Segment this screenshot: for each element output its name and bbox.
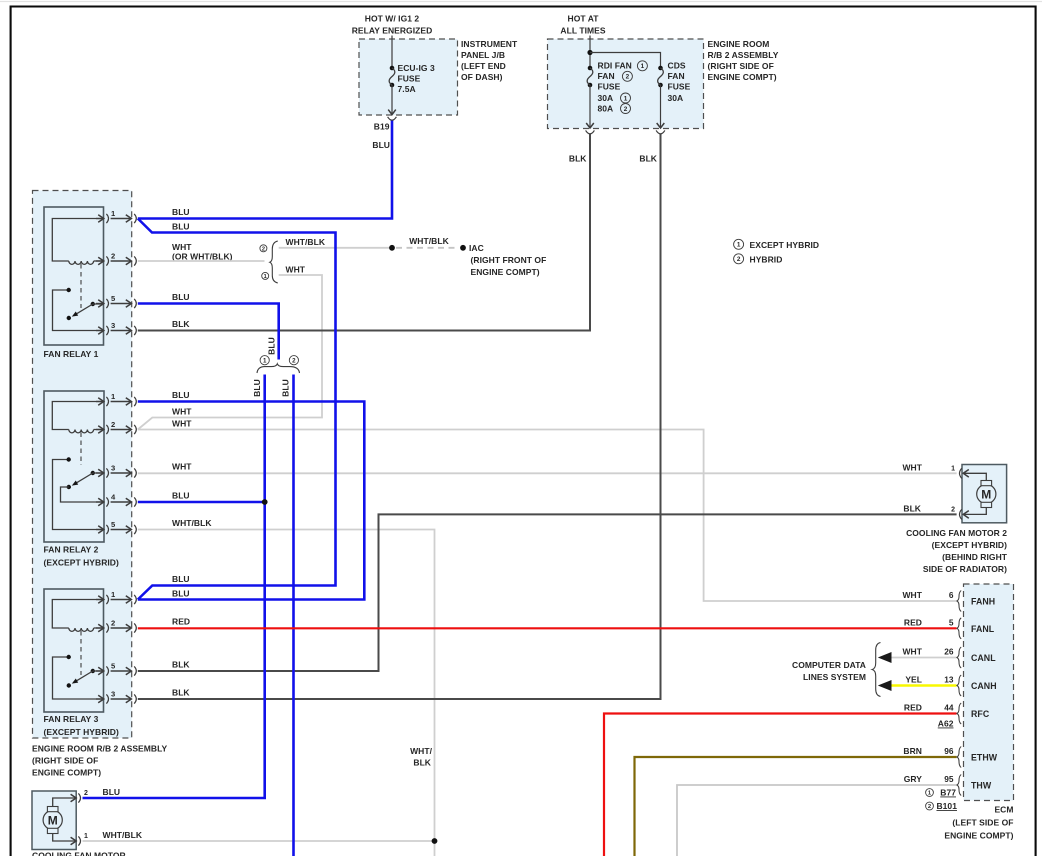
svg-text:1: 1 [263, 357, 267, 364]
svg-text:BLU: BLU [267, 337, 277, 355]
wire WHT relay2 pin2 to ECM FANH [138, 430, 957, 602]
motor2 pin 1 [960, 468, 962, 478]
svg-text:(EXCEPT HYBRID): (EXCEPT HYBRID) [932, 540, 1007, 550]
svg-text:5: 5 [949, 617, 954, 627]
fuse ECU-IG 3 7.5A [390, 66, 395, 71]
legend hybrid [734, 254, 744, 264]
wire RED relay3 pin2 to ECM FANL [138, 627, 957, 629]
svg-text:CANH: CANH [971, 681, 997, 691]
wire BRN ECM ETHW going off-page [635, 757, 957, 856]
svg-text:BLU: BLU [172, 292, 190, 302]
wire BLK CDS fuse down to relay3 pin3 [138, 134, 661, 700]
svg-text:2: 2 [84, 790, 88, 797]
svg-text:WHT: WHT [286, 264, 306, 274]
svg-text:EXCEPT HYBRID: EXCEPT HYBRID [750, 240, 820, 250]
svg-text:RED: RED [904, 617, 922, 627]
svg-text:FAN: FAN [598, 71, 615, 81]
svg-text:80A: 80A [598, 104, 614, 114]
wire BLK RDI fuse down to relay1 pin3 [138, 134, 590, 331]
svg-text:SIDE OF RADIATOR): SIDE OF RADIATOR) [923, 564, 1007, 574]
cooling fan motor 2 box [962, 465, 1007, 523]
feed wire into box [391, 36, 393, 69]
engine room R/B 2 assembly (fuse) dashed box [548, 39, 704, 129]
svg-text:30A: 30A [668, 93, 684, 103]
svg-text:ALL TIMES: ALL TIMES [560, 26, 605, 36]
svg-text:(LEFT SIDE OF: (LEFT SIDE OF [952, 818, 1013, 828]
svg-text:THW: THW [971, 781, 992, 791]
legend except hybrid [734, 239, 744, 249]
svg-text:30A: 30A [598, 93, 614, 103]
svg-text:(RIGHT SIDE OF: (RIGHT SIDE OF [32, 756, 98, 766]
svg-text:(EXCEPT HYBRID): (EXCEPT HYBRID) [44, 727, 119, 737]
relay inner box FAN RELAY 1 [44, 207, 104, 345]
wire BLU branch 2 going off-page [292, 375, 295, 856]
svg-text:GRY: GRY [904, 774, 923, 784]
svg-text:1: 1 [264, 274, 267, 280]
svg-text:3: 3 [111, 321, 115, 330]
svg-text:B19: B19 [374, 122, 390, 132]
svg-text:ENGINE ROOM R/B 2 ASSEMBLY: ENGINE ROOM R/B 2 ASSEMBLY [32, 744, 168, 754]
svg-text:FUSE: FUSE [668, 82, 691, 92]
svg-text:RELAY ENERGIZED: RELAY ENERGIZED [352, 26, 433, 36]
svg-text:BLU: BLU [372, 140, 390, 150]
svg-text:26: 26 [944, 647, 954, 657]
junction relay2 pin4 / branch1 [262, 499, 268, 505]
svg-text:FAN RELAY 2: FAN RELAY 2 [44, 545, 99, 555]
svg-text:HOT AT: HOT AT [568, 14, 600, 24]
svg-text:2: 2 [292, 357, 296, 364]
wire BLK relay3 pin5 to cooling fan motor 2 pin 2 [138, 514, 957, 671]
wire BLU relay2 pin1 to relay3 pin1 (lower) [138, 402, 364, 600]
svg-text:COOLING FAN MOTOR: COOLING FAN MOTOR [32, 851, 126, 856]
wire BLU relay2 pin4 to junction [138, 501, 265, 504]
svg-text:WHT/BLK: WHT/BLK [286, 237, 326, 247]
feed wire and branch [589, 36, 591, 69]
svg-text:CANL: CANL [971, 653, 996, 663]
junction WHT/BLK [432, 838, 438, 844]
motor1 pin 1 [71, 837, 77, 845]
relay3 pins [96, 599, 104, 601]
svg-text:BLU: BLU [172, 222, 190, 232]
svg-text:WHT: WHT [172, 419, 192, 429]
cooling fan motor 1 box [32, 791, 76, 850]
svg-text:FAN RELAY 3: FAN RELAY 3 [44, 714, 99, 724]
svg-text:1: 1 [624, 95, 628, 102]
motor1 pin 2 [71, 794, 77, 802]
svg-text:FUSE: FUSE [398, 74, 421, 84]
svg-text:FUSE: FUSE [598, 82, 621, 92]
wire WHT relay2 pin3 to cooling fan motor 2 pin 1 [138, 472, 957, 474]
svg-text:BLK: BLK [413, 758, 431, 768]
brace [872, 643, 880, 697]
svg-text:WHT: WHT [902, 463, 922, 473]
svg-text:WHT/BLK: WHT/BLK [172, 518, 212, 528]
motor2 pin 2 [960, 509, 962, 519]
svg-text:BLK: BLK [903, 504, 921, 514]
svg-text:ECM: ECM [994, 805, 1013, 815]
svg-text:M: M [48, 814, 58, 828]
fuse CDS FAN 30A [658, 66, 663, 71]
relay inner box FAN RELAY 2 [44, 391, 104, 542]
svg-text:WHT: WHT [172, 242, 192, 252]
svg-text:2: 2 [626, 74, 630, 81]
svg-text:COMPUTER DATA: COMPUTER DATA [792, 660, 866, 670]
svg-text:LINES SYSTEM: LINES SYSTEM [803, 672, 866, 682]
svg-text:HYBRID: HYBRID [750, 255, 783, 265]
svg-text:(EXCEPT HYBRID): (EXCEPT HYBRID) [44, 558, 119, 568]
relay3 switch [53, 657, 104, 699]
svg-text:OF DASH): OF DASH) [461, 72, 503, 82]
svg-text:WHT/BLK: WHT/BLK [409, 236, 449, 246]
wire BLU B19 to relay1 pin1 [138, 120, 392, 219]
ECM pin connectors [957, 591, 961, 612]
svg-text:WHT: WHT [902, 590, 922, 600]
wire GRY ECM THW going off-page [677, 785, 957, 856]
IAC junction and dashed continuation [389, 245, 395, 251]
svg-text:CDS: CDS [668, 61, 686, 71]
svg-text:WHT: WHT [172, 407, 192, 417]
svg-text:ENGINE COMPT): ENGINE COMPT) [708, 72, 777, 82]
svg-text:44: 44 [944, 703, 954, 713]
svg-text:BLU: BLU [281, 379, 291, 397]
svg-text:95: 95 [944, 774, 954, 784]
svg-text:HOT W/ IG1 2: HOT W/ IG1 2 [365, 14, 420, 24]
svg-text:BLU: BLU [172, 491, 190, 501]
relay3 coil [52, 600, 103, 629]
svg-text:RED: RED [172, 617, 190, 627]
wire WHT relay1 pin2 branch 1: right, down, to relay2 pin2 [138, 275, 322, 430]
svg-text:BLK: BLK [569, 154, 587, 164]
relay2 coil [52, 402, 103, 430]
svg-text:COOLING FAN MOTOR 2: COOLING FAN MOTOR 2 [906, 528, 1007, 538]
svg-text:6: 6 [949, 590, 954, 600]
relay1 switch [53, 290, 104, 331]
svg-text:7.5A: 7.5A [398, 84, 416, 94]
svg-text:3: 3 [111, 690, 115, 699]
svg-text:2: 2 [737, 256, 741, 263]
svg-text:M: M [981, 488, 991, 502]
wire WHT/BLK relay2 pin5 down to junction and cooling fan motor 1 pin 1 [138, 530, 435, 856]
svg-text:WHT: WHT [172, 462, 192, 472]
svg-text:IAC: IAC [469, 243, 484, 253]
svg-text:2: 2 [262, 246, 265, 252]
svg-text:1: 1 [641, 63, 645, 70]
svg-text:1: 1 [84, 833, 88, 840]
wire WHT/BLK relay1 pin2 branch 2 to IAC junction [279, 247, 392, 249]
wire YEL CANH to ECM [884, 684, 957, 686]
svg-text:BLU: BLU [172, 574, 190, 584]
svg-text:BLU: BLU [172, 390, 190, 400]
svg-text:FANH: FANH [971, 597, 995, 607]
engine room R/B 2 assembly (relay block) dashed box [33, 191, 132, 739]
wire BLU relay1 pin1 to relay3 pin1 (upper) [138, 219, 336, 600]
instrument panel J/B dashed box [359, 39, 458, 115]
svg-text:FAN: FAN [668, 71, 685, 81]
svg-text:WHT: WHT [902, 647, 922, 657]
ECM dashed box [964, 584, 1014, 801]
svg-text:ENGINE COMPT): ENGINE COMPT) [32, 768, 101, 778]
arrow CANH [878, 680, 892, 691]
motor1 symbol [43, 810, 62, 829]
svg-text:RDI FAN: RDI FAN [598, 61, 632, 71]
svg-text:FANL: FANL [971, 624, 995, 634]
svg-text:RFC: RFC [971, 709, 990, 719]
relay2 switch [53, 460, 104, 530]
svg-text:2: 2 [111, 619, 115, 628]
svg-text:B77: B77 [940, 788, 956, 798]
svg-text:ECU-IG 3: ECU-IG 3 [398, 63, 435, 73]
svg-text:BLU: BLU [103, 787, 121, 797]
relay1 coil [52, 219, 103, 262]
wire WHT CANL to ECM [884, 657, 957, 659]
svg-text:(LEFT END: (LEFT END [461, 61, 506, 71]
motor1 internal wires [53, 798, 76, 807]
arrow CANL [878, 652, 892, 663]
fuse RDI FAN / FAN 30A/80A [588, 66, 593, 71]
svg-text:ETHW: ETHW [971, 753, 998, 763]
svg-text:INSTRUMENT: INSTRUMENT [461, 39, 518, 49]
svg-text:ENGINE COMPT): ENGINE COMPT) [944, 831, 1013, 841]
svg-text:BLK: BLK [172, 319, 190, 329]
svg-text:BLU: BLU [172, 207, 190, 217]
svg-text:BRN: BRN [903, 746, 922, 756]
svg-text:2: 2 [111, 420, 115, 429]
svg-text:RED: RED [904, 703, 922, 713]
svg-text:2: 2 [111, 252, 115, 261]
svg-text:BLU: BLU [252, 379, 262, 397]
svg-text:(RIGHT SIDE OF: (RIGHT SIDE OF [708, 61, 774, 71]
svg-text:1: 1 [737, 242, 741, 249]
relay2 pins [96, 401, 104, 403]
svg-text:WHT/: WHT/ [410, 746, 433, 756]
connector B77 / B101 labels [926, 789, 934, 797]
svg-text:R/B 2 ASSEMBLY: R/B 2 ASSEMBLY [708, 50, 779, 60]
svg-text:2: 2 [951, 507, 955, 514]
svg-text:96: 96 [944, 746, 954, 756]
svg-text:WHT/BLK: WHT/BLK [103, 830, 143, 840]
wire BLU branch 1 down to cooling fan motor 1 pin 2 [83, 375, 265, 799]
svg-text:ENGINE ROOM: ENGINE ROOM [708, 39, 770, 49]
relay1 pins [96, 218, 104, 220]
svg-text:(RIGHT FRONT OF: (RIGHT FRONT OF [471, 255, 547, 265]
svg-text:3: 3 [111, 464, 115, 473]
svg-text:BLK: BLK [639, 154, 657, 164]
wire BLU relay1 pin5 down to split [138, 304, 279, 360]
relay inner box FAN RELAY 3 [44, 589, 104, 712]
svg-text:BLK: BLK [172, 660, 190, 670]
svg-text:BLK: BLK [172, 688, 190, 698]
svg-text:FAN RELAY 1: FAN RELAY 1 [44, 349, 99, 359]
svg-text:(BEHIND RIGHT: (BEHIND RIGHT [942, 552, 1008, 562]
svg-text:2: 2 [928, 804, 931, 810]
wire RED ECM RFC going off-page [604, 714, 957, 856]
svg-text:ENGINE COMPT): ENGINE COMPT) [471, 267, 540, 277]
svg-text:YEL: YEL [905, 675, 922, 685]
svg-text:1: 1 [951, 466, 955, 473]
brace split at relay1 pin2 [138, 260, 265, 262]
motor2 internal wires [964, 473, 987, 480]
svg-text:13: 13 [944, 675, 954, 685]
svg-text:BLU: BLU [172, 589, 190, 599]
svg-text:PANEL J/B: PANEL J/B [461, 50, 505, 60]
svg-text:2: 2 [624, 106, 628, 113]
svg-text:A62: A62 [938, 719, 954, 729]
svg-text:B101: B101 [936, 801, 957, 811]
motor2 symbol [977, 484, 996, 503]
